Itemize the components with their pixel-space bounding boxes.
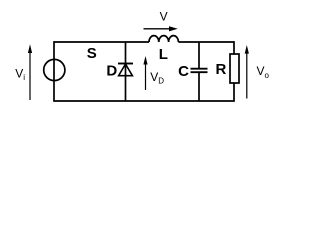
svg-text:S: S (87, 45, 97, 62)
diode D triangle (119, 64, 133, 76)
arrow current direction over L (144, 28, 171, 30)
svg-text:Vo: Vo (257, 64, 270, 80)
diode D cathode bar (118, 63, 133, 65)
arrow VD (145, 64, 147, 91)
svg-text:V: V (160, 9, 168, 23)
wire capacitor branch upper (198, 42, 200, 68)
wire right branch lower (233, 83, 235, 101)
wire left branch (53, 41, 55, 101)
wire top (source to inductor, with coil gap) (54, 41, 149, 43)
svg-text:Vi: Vi (15, 66, 25, 82)
svg-text:L: L (159, 46, 168, 63)
svg-text:VD: VD (150, 70, 164, 86)
wire right branch upper (233, 41, 235, 54)
wire capacitor branch lower (198, 73, 200, 101)
svg-text:C: C (178, 63, 189, 80)
svg-text:R: R (215, 61, 226, 78)
inductor L coil (149, 36, 178, 42)
voltage source V1 circle (44, 59, 65, 80)
arrow Vi (29, 52, 31, 100)
capacitor C top plate (191, 68, 208, 70)
wire top (inductor to right corner) (178, 41, 234, 43)
arrow Vo (246, 52, 248, 99)
capacitor C bottom plate (191, 71, 208, 73)
svg-text:D: D (106, 63, 117, 80)
wire diode branch (125, 42, 127, 101)
resistor R1 body (230, 54, 239, 83)
wire bottom (53, 100, 235, 102)
